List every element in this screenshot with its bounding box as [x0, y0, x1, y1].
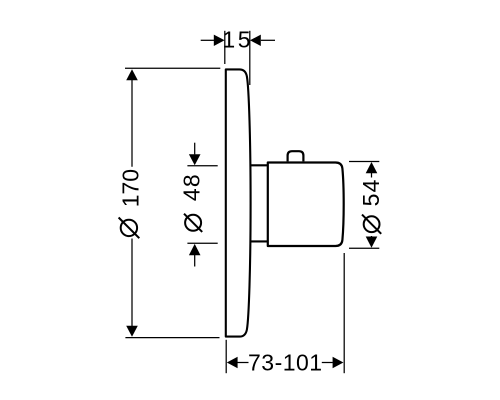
- dimension D54: bottom extension line: [349, 247, 379, 249]
- svg-text:1: 1: [222, 27, 235, 53]
- dimension D48: diameter symbol: [184, 214, 202, 232]
- dimension D48: top arrowhead: [189, 154, 201, 165]
- dimension D48: top extension line: [187, 165, 217, 167]
- svg-text:170: 170: [118, 169, 144, 207]
- dimension D54: bottom arrowhead: [366, 237, 378, 248]
- dimension 15: left extension line: [224, 31, 226, 64]
- dimension D170: dimension line segments: [131, 80, 133, 326]
- dimension 73-101: right extension line: [343, 253, 345, 373]
- svg-text:54: 54: [358, 178, 384, 206]
- dimension D170: diameter symbol: [119, 218, 140, 239]
- dimension D170: top arrowhead: [126, 69, 138, 80]
- escutcheon plate (side profile): [226, 69, 251, 336]
- svg-text:48: 48: [179, 173, 205, 201]
- dimension D54: bottom stub line: [371, 236, 373, 237]
- dimension D48: top tail line: [194, 143, 196, 155]
- thermostat handle (54 mm body): [268, 163, 344, 247]
- dimension 73-101: right arrowhead: [333, 357, 344, 368]
- dimension 73-101: dimension line segments: [238, 362, 333, 364]
- svg-text:73-101: 73-101: [248, 349, 323, 375]
- dimension D54: top stub line: [371, 173, 373, 178]
- dimension 73-101: left arrowhead: [227, 357, 238, 368]
- safety stop button on handle: [288, 151, 304, 161]
- dimension 15: right arrowhead: [250, 35, 261, 46]
- valve neck (48 mm section): [250, 165, 268, 241]
- dimension D48: bottom extension line: [187, 242, 217, 244]
- svg-text:5: 5: [238, 27, 251, 53]
- dimension D170: top extension line: [125, 67, 220, 69]
- dimension 15: left leader line: [201, 39, 214, 41]
- dimension 73-101: left extension line: [225, 340, 227, 373]
- dimension 15: right leader line: [261, 39, 275, 41]
- dimension D54: top extension line: [349, 161, 379, 163]
- dimension D170: bottom extension line: [125, 337, 219, 339]
- dimension 15: right extension line: [249, 31, 251, 85]
- dimension D48: bottom arrowhead: [189, 244, 201, 255]
- dimension D54: diameter symbol: [362, 215, 381, 234]
- dimension 15: left arrowhead: [214, 35, 225, 46]
- dimension D170: bottom arrowhead: [126, 326, 138, 337]
- dimension D48: bottom tail line: [194, 255, 196, 267]
- dimension D54: top arrowhead: [366, 162, 378, 173]
